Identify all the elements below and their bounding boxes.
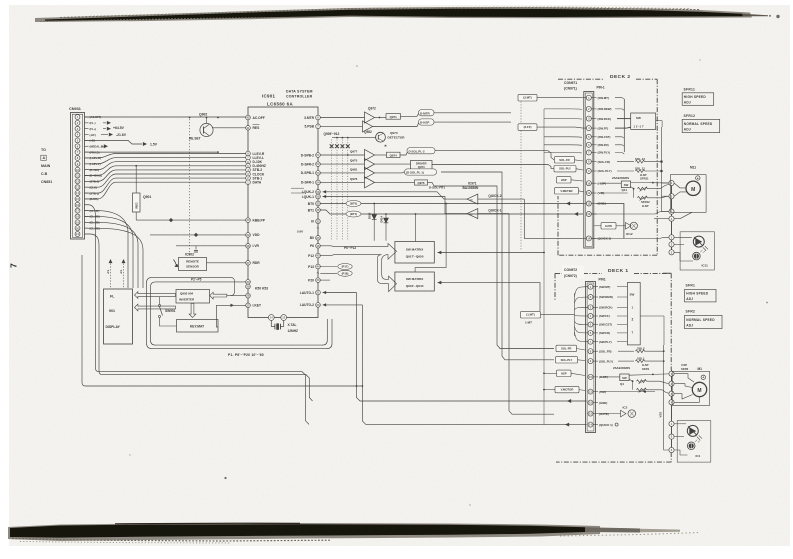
svg-text:REG: REG (135, 202, 139, 208)
svg-text:HSP: HSP (561, 371, 567, 375)
svg-text:P6'~P12: P6'~P12 (344, 246, 356, 250)
svg-text:(SW.FR): (SW.FR) (598, 143, 609, 147)
wire I-AUTO-2 (323, 303, 618, 426)
dashed sense line (189, 119, 191, 255)
svg-text:P20: P20 (308, 278, 314, 282)
svg-text:+FL: +FL (107, 269, 110, 274)
svg-text:V.METER: V.METER (560, 189, 572, 193)
svg-text:PIN-1: PIN-1 (597, 86, 605, 90)
svg-text:Q901: Q901 (143, 195, 151, 199)
svg-text:(-HF): (-HF) (90, 133, 96, 137)
key matrix box (177, 320, 219, 333)
wire KEY.MAT to I.KEY (217, 304, 246, 327)
oval tap P17 (320, 264, 352, 270)
svg-text:3.MTR: 3.MTR (304, 116, 315, 120)
svg-text:Q971: Q971 (390, 115, 397, 119)
svg-text:(SW.PLY): (SW.PLY) (599, 340, 612, 344)
svg-text:DECK 1: DECK 1 (608, 268, 629, 274)
svg-text:HSP: HSP (561, 178, 567, 182)
svg-text:SFR1: SFR1 (642, 367, 650, 371)
svg-text:IC902: IC902 (185, 253, 194, 257)
svg-text:V.MOTOR: V.MOTOR (561, 388, 574, 392)
trimmer SFR11 high speed adj (682, 87, 714, 105)
svg-text:(QUICK 1): (QUICK 1) (599, 423, 613, 427)
driver Q972 (320, 107, 511, 124)
svg-text:IC1: IC1 (696, 454, 701, 458)
supply arrow -21.6V (101, 133, 127, 137)
solenoid SOL2 (618, 347, 665, 353)
IC901 right pin labels (291, 116, 320, 307)
svg-text:(SW.MT): (SW.MT) (598, 96, 609, 100)
svg-text:DETECTOR: DETECTOR (388, 136, 406, 140)
svg-text:LC6560 6A: LC6560 6A (267, 101, 293, 106)
svg-text:IC901: IC901 (262, 94, 275, 99)
svg-text:TO: TO (41, 148, 46, 152)
svg-text:(CN972): (CN972) (564, 274, 577, 278)
svg-text:Q974: Q974 (390, 153, 397, 157)
svg-text:SFR2: SFR2 (681, 367, 689, 371)
solenoid SOL.12 (617, 157, 663, 163)
svg-text:A: A (43, 156, 46, 160)
IC902 remote sensor (174, 253, 246, 271)
svg-text:BT1: BT1 (308, 208, 314, 212)
svg-text:~: ~ (317, 226, 320, 231)
svg-text:C.B: C.B (41, 172, 48, 176)
svg-text:7: 7 (9, 263, 19, 268)
svg-text:2SA933S/RS: 2SA933S/RS (613, 366, 630, 370)
top scan band (35, 7, 780, 22)
CN931 pin stub labels (85, 115, 104, 230)
svg-text:1 1'~1 7: 1 1'~1 7 (634, 124, 645, 128)
svg-text:12MHZ: 12MHZ (288, 329, 299, 333)
sw matrix Q931-Q944 (395, 272, 540, 311)
svg-text:Q977: Q977 (350, 149, 358, 153)
svg-text:CONTROLLER: CONTROLLER (286, 95, 313, 99)
svg-text:(SW.FF): (SW.FF) (599, 314, 610, 318)
svg-text:HIGH SPEED: HIGH SPEED (684, 95, 707, 99)
svg-text:Q11: Q11 (622, 188, 628, 192)
svg-text:(1.MT): (1.MT) (526, 313, 535, 317)
wire BT0 to sw matrix 2 top (415, 203, 447, 272)
label HSP deck2 (557, 177, 584, 183)
deck1 border top right corner (663, 272, 671, 274)
wire loop P2-P5 (147, 277, 333, 348)
trimmer SFR2 normal speed adj (685, 310, 723, 329)
svg-text:(SW.MT): (SW.MT) (599, 285, 610, 289)
svg-text:SENSOR: SENSOR (186, 265, 200, 269)
svg-text:BT0: BT0 (308, 202, 314, 206)
svg-text:MAIN: MAIN (41, 164, 51, 168)
svg-text:ADJ: ADJ (686, 297, 693, 301)
svg-text:901: 901 (109, 309, 115, 313)
svg-text:RES: RES (253, 126, 261, 130)
svg-text:CON971: CON971 (564, 81, 577, 85)
svg-text:5.6V: 5.6V (297, 230, 303, 234)
connector CN972 deck1 (586, 282, 596, 433)
connector CN971 deck2 (584, 92, 594, 249)
deck1 sense bundle to 1.MT tap (521, 287, 589, 342)
svg-text:(SW.CST): (SW.CST) (598, 135, 611, 139)
svg-text:Q981: Q981 (350, 167, 358, 171)
svg-text:SOL-PLY: SOL-PLY (559, 167, 571, 171)
IC901 bottom pins 14 15 crystal (268, 315, 298, 333)
wire verticals to long bottom bus (82, 205, 103, 386)
svg-text:(SW.FF): (SW.FF) (598, 126, 609, 130)
svg-text:2SA933S/RS: 2SA933S/RS (612, 176, 629, 180)
svg-text:~: ~ (317, 271, 320, 276)
svg-text:(SW.CST): (SW.CST) (599, 323, 612, 327)
svg-text:Q975: Q975 (350, 159, 358, 163)
svg-text:(FL+): (FL+) (90, 127, 97, 131)
svg-text:(D-SOL.PL-1): (D-SOL.PL-1) (406, 171, 424, 175)
deck2 motor bus (654, 127, 674, 255)
wire VDD (150, 230, 303, 238)
svg-text:SOL-PLY: SOL-PLY (561, 358, 573, 362)
svg-text:P12: P12 (308, 254, 314, 258)
deck2 pin13 wire to bus pin3 (591, 212, 669, 214)
svg-text:Q972: Q972 (368, 107, 376, 111)
deck2 quick wire (583, 237, 586, 239)
svg-text:D-SPB-1: D-SPB-1 (301, 171, 314, 175)
svg-text:(FL-): (FL-) (90, 121, 96, 125)
deck2 dash-dot border (558, 74, 657, 255)
transistor Q902 (189, 113, 246, 141)
svg-text:Q973: Q973 (390, 131, 398, 135)
deck1 dash-dot border (555, 268, 671, 462)
diode D914 (379, 213, 388, 241)
vss sense line (659, 345, 669, 450)
svg-text:P13: P13 (308, 265, 314, 269)
svg-text:D914: D914 (379, 216, 383, 223)
stray scan specks (129, 59, 768, 506)
supply arrow +64.5V (103, 121, 125, 131)
svg-text:X.TAL: X.TAL (288, 323, 297, 327)
driver Q982 hsp (320, 119, 511, 134)
wire BT0 (320, 201, 583, 207)
svg-text:REMOTE: REMOTE (186, 260, 199, 264)
svg-text:ADJ: ADJ (684, 101, 691, 105)
supply arrow 1.5V (85, 140, 158, 146)
deck2 sw sense wires to matrix bus (543, 109, 582, 425)
svg-text:BA10358N: BA10358N (463, 186, 479, 190)
svg-text:(2.FF): (2.FF) (524, 125, 532, 129)
IC901 right pins (316, 115, 321, 307)
IC901 data system controller (248, 90, 318, 318)
op-amp IC971 quick-1 (467, 209, 554, 415)
svg-text:M11: M11 (690, 165, 696, 169)
svg-text:(SW.REW): (SW.REW) (599, 295, 613, 299)
svg-text:K50 K53: K50 K53 (255, 287, 268, 291)
svg-text:Q902: Q902 (199, 113, 207, 117)
svg-text:CON972: CON972 (564, 268, 577, 272)
deck1 pin labels (593, 285, 613, 427)
solenoid SOL1 (618, 356, 665, 362)
svg-text:KBB.PP: KBB.PP (253, 218, 266, 222)
svg-text:QUICK-2: QUICK-2 (488, 194, 501, 198)
svg-text:SW MATRIX: SW MATRIX (406, 277, 424, 281)
svg-text:SW901: SW901 (165, 309, 176, 313)
svg-text:B0: B0 (310, 236, 314, 240)
svg-text:P1. P6'~'P20 10'~'60: P1. P6'~'P20 10'~'60 (228, 353, 264, 357)
svg-text:D915: D915 (368, 212, 372, 219)
trimmer SFR1 high speed adj (685, 284, 717, 302)
op-amp IC971 quick-2 (463, 182, 584, 239)
svg-text:SOL-FR: SOL-FR (559, 158, 569, 162)
svg-text:Q903 904: Q903 904 (180, 292, 194, 296)
wire I-QUK-2 from buffer (323, 190, 467, 199)
svg-text:(SW.RCK): (SW.RCK) (599, 306, 613, 310)
svg-text:CN851: CN851 (41, 180, 52, 184)
svg-text:+64.5V: +64.5V (113, 126, 125, 130)
svg-text:INVERTER: INVERTER (179, 298, 195, 302)
svg-text:(SOL.PLY): (SOL.PLY) (598, 169, 612, 173)
svg-text:RDR: RDR (253, 261, 261, 265)
driver Q977 spb2 (320, 148, 554, 161)
svg-text:M: M (697, 388, 701, 394)
svg-text:I.KEY: I.KEY (253, 304, 262, 308)
svg-text:(P18): (P18) (342, 271, 349, 275)
svg-text:H.SP: H.SP (642, 204, 649, 208)
svg-text:D-SFR-1: D-SFR-1 (301, 181, 314, 185)
wire I.VR with cap (176, 246, 246, 252)
bottom scan band (8, 523, 700, 543)
svg-text:SOL-FR: SOL-FR (561, 346, 571, 350)
svg-text:DATA SYSTEM: DATA SYSTEM (286, 90, 313, 94)
svg-text:(BT0): (BT0) (350, 202, 357, 206)
svg-text:IC2: IC2 (623, 406, 628, 410)
svg-text:(SOL.PLY): (SOL.PLY) (599, 359, 613, 363)
driver Q975 sfr2 (320, 159, 410, 170)
deck1 transistor Q1 speed circuit (600, 363, 702, 393)
label SOL-FR deck2 (555, 157, 584, 163)
svg-text:D-SOL-FR1: D-SOL-FR1 (429, 186, 445, 190)
svg-text:I-QUK-2: I-QUK-2 (302, 190, 314, 194)
sw matrix Q917-Q950 (395, 242, 544, 264)
svg-text:1-MT: 1-MT (525, 320, 532, 324)
driver block Q974 (411, 161, 555, 170)
label V.METER deck2 (555, 188, 585, 194)
FL display supply arrows (107, 259, 125, 289)
svg-text:D-SFR-2: D-SFR-2 (301, 162, 314, 166)
svg-text:(CN971): (CN971) (564, 86, 577, 90)
svg-text:(SW.REW): (SW.REW) (598, 107, 612, 111)
connector CON971 labels (564, 81, 605, 90)
deck2 gate IC12 (594, 222, 638, 236)
svg-text:Q982: Q982 (364, 130, 372, 134)
IC901 left pins (246, 115, 251, 307)
oval tap P18 (320, 270, 352, 276)
svg-text:ADJ: ADJ (686, 324, 693, 328)
switch SW901 (158, 297, 176, 326)
deck2 transistor Q11 speed circuit (600, 173, 669, 208)
diode D915 (368, 203, 377, 241)
svg-text:M: M (691, 187, 695, 193)
svg-text:SFR1: SFR1 (686, 284, 696, 288)
node Q909-912 dashed taps (324, 132, 350, 241)
svg-text:D-SOL.PL-2: D-SOL.PL-2 (409, 149, 425, 153)
wire KBB.PP (136, 218, 246, 222)
deck2 quick wire to IC11 (591, 237, 669, 238)
label V.MOTOR deck1 (543, 386, 585, 392)
IC901 left pin labels (253, 116, 269, 308)
wire P6-P12 channel arrow to sw matrix 1 (320, 243, 396, 259)
deck1 motor bus (669, 370, 674, 450)
svg-text:SW MATRIX: SW MATRIX (406, 248, 424, 252)
svg-text:PIN1: PIN1 (599, 278, 606, 282)
motor M1 (672, 372, 710, 406)
wire AC.OFF CN931 to IC901 (85, 117, 246, 119)
svg-text:DECK 2: DECK 2 (610, 74, 631, 80)
svg-text:M1: M1 (698, 367, 703, 371)
svg-text:Q917'~Q950: Q917'~Q950 (406, 255, 424, 259)
tap 2.FF dashed link (518, 102, 586, 252)
svg-text:(SOL.FR): (SOL.FR) (599, 349, 612, 353)
svg-text:CN931: CN931 (69, 107, 81, 111)
deck2 switch block SW 1-7 (615, 98, 662, 154)
svg-text:D-SPB-2: D-SPB-2 (301, 153, 314, 157)
svg-text:Q931'~Q944: Q931'~Q944 (406, 284, 424, 288)
svg-text:SFR12: SFR12 (684, 114, 696, 118)
deck2 gnd return arrow (583, 203, 586, 205)
note TO A MAIN C.B CN851 (41, 148, 52, 184)
deck1 vm wire (600, 391, 655, 393)
svg-text:SFR2: SFR2 (686, 310, 696, 314)
svg-text:Q1: Q1 (620, 382, 624, 386)
svg-text:SFR11: SFR11 (640, 177, 649, 181)
svg-text:Q909'~912: Q909'~912 (324, 132, 340, 136)
svg-text:(SW.RCK): (SW.RCK) (598, 117, 612, 121)
deck1 gate IC2 (598, 406, 636, 418)
trimmer SFR12 normal speed adj (682, 114, 720, 133)
svg-text:SW: SW (630, 293, 635, 297)
svg-text:-21.6V: -21.6V (116, 133, 127, 137)
svg-text:SW: SW (622, 376, 627, 380)
svg-text:1.5V: 1.5V (150, 143, 158, 147)
svg-text:ADJ: ADJ (684, 128, 691, 132)
svg-text:Q976: Q976 (417, 181, 424, 185)
svg-text:(SW.FR): (SW.FR) (599, 331, 610, 335)
svg-text:NORMAL SPEED: NORMAL SPEED (684, 122, 713, 126)
svg-text:+FL: +FL (120, 269, 123, 274)
deck2 pin labels (591, 96, 611, 241)
solenoid SOL.11 (617, 166, 663, 172)
svg-text:(SOL.FR): (SOL.FR) (598, 160, 611, 164)
svg-text:2: 2 (632, 318, 634, 322)
photo interrupter IC11 (669, 232, 714, 270)
motor M11 (670, 165, 706, 218)
tap 2.MT (518, 94, 586, 101)
bent channel arrow to sw matrix 2 (377, 255, 396, 292)
svg-text:I.VR: I.VR (253, 244, 260, 248)
wire I-QUK-1 from buffer (323, 195, 467, 214)
photo interrupter IC1 (669, 421, 711, 463)
svg-text:SFR11: SFR11 (684, 87, 696, 91)
svg-text:RE.SET: RE.SET (189, 137, 201, 141)
svg-text:I0: I0 (311, 220, 314, 224)
wire FL.D (85, 151, 219, 153)
wire bundle CN931 pins 8-15 to IC901 (85, 154, 246, 199)
deck2 gnd bend wire (596, 204, 624, 239)
svg-text:P6: P6 (310, 244, 314, 248)
svg-text:D-MTR: D-MTR (420, 111, 430, 115)
wire bundle CN931 lower pins down to display area (85, 211, 144, 288)
svg-text:SW: SW (624, 183, 629, 187)
svg-text:(P17): (P17) (342, 265, 349, 269)
FL901 display (104, 289, 133, 344)
driver Q981 spb1 (320, 167, 554, 359)
long bus wires lower left (86, 372, 364, 425)
connector CON972 labels (562, 266, 606, 282)
svg-text:(SW.PLY): (SW.PLY) (598, 151, 611, 155)
svg-text:VDD: VDD (253, 233, 261, 237)
svg-text:I-AUTO-1: I-AUTO-1 (300, 291, 314, 295)
svg-text:(2.MT): (2.MT) (523, 96, 532, 100)
svg-text:NORMAL SPEED: NORMAL SPEED (686, 318, 715, 322)
data detector Q973 (332, 131, 405, 147)
svg-text:IC12: IC12 (626, 232, 633, 236)
svg-text:(BT1): (BT1) (350, 212, 357, 216)
deck1 switch block SW 1-7 (617, 283, 664, 346)
svg-text:HIGH SPEED: HIGH SPEED (686, 292, 709, 296)
connector CN931 (69, 107, 85, 239)
svg-text:QUICK-1: QUICK-1 (488, 209, 501, 213)
open arrows inverter to FL display (135, 277, 246, 317)
arrow MEDAL.D (101, 144, 108, 148)
label SOL-PLY deck1 (556, 357, 586, 363)
svg-text:I-AUTO-2: I-AUTO-2 (300, 303, 314, 307)
svg-text:AC.OFF: AC.OFF (253, 116, 265, 120)
svg-text:DISPLAY: DISPLAY (106, 325, 121, 329)
svg-text:GATE: GATE (605, 224, 612, 228)
svg-text:IC11: IC11 (702, 264, 709, 268)
wire P20 (320, 279, 330, 281)
regulator Q901 (133, 165, 152, 220)
svg-text:KEY.MAT: KEY.MAT (190, 325, 204, 329)
wire BT1 to sw matrix 1 top (415, 213, 417, 241)
svg-text:(GND): (GND) (599, 401, 607, 405)
svg-text:D-HSP: D-HSP (420, 121, 429, 125)
svg-text:DATA: DATA (253, 181, 262, 185)
svg-text:SW: SW (636, 116, 641, 120)
svg-text:P2'~P5: P2'~P5 (191, 278, 202, 282)
label SOL-FR deck1 (556, 345, 585, 351)
svg-text:Q976: Q976 (350, 177, 358, 181)
svg-text:Q974: Q974 (418, 165, 425, 169)
driver Q976 fr1 (320, 177, 554, 349)
wire BT1 (320, 210, 583, 217)
label HSP deck1 (543, 370, 585, 376)
svg-text:+: + (697, 176, 699, 180)
svg-text:I-QUK-1: I-QUK-1 (302, 195, 314, 199)
svg-text:VSS: VSS (659, 412, 663, 418)
wire I-AUTO-1 (323, 291, 587, 403)
svg-text:5.PSB: 5.PSB (304, 125, 314, 129)
inverter Q903 Q904 (176, 290, 210, 304)
label SOL-PLY deck2 (554, 166, 583, 172)
svg-text:+: + (702, 376, 704, 380)
